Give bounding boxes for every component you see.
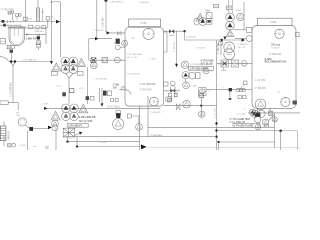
svg-text:2"-TO FLARE HDR: 2"-TO FLARE HDR xyxy=(230,118,251,121)
PSV dark label mid xyxy=(201,59,215,65)
diag arrow from hatched box xyxy=(75,132,83,136)
svg-text:2": 2" xyxy=(54,19,56,21)
svg-text:1-CONDENSER VENT: 1-CONDENSER VENT xyxy=(190,64,213,66)
boxed label bottom-left xyxy=(67,124,88,128)
svg-text:2": 2" xyxy=(244,109,246,111)
vessel S-580 body xyxy=(252,26,296,109)
tiny box near 265 xyxy=(264,124,268,127)
wire instrument row y60 xyxy=(89,39,125,61)
wire row y89.7 xyxy=(206,89,252,91)
circle B small xyxy=(136,124,143,131)
svg-text:2"-BM-580: 2"-BM-580 xyxy=(139,2,150,4)
wire line A y136.7 xyxy=(66,136,217,138)
left cluster circle below dark box xyxy=(91,62,98,69)
instrument box2 on y28 xyxy=(42,25,46,28)
boxes below y89.7 xyxy=(238,96,246,99)
hatched box xyxy=(63,128,74,137)
wire line y127.3 xyxy=(148,126,274,128)
svg-text:580: 580 xyxy=(16,115,20,117)
column C-5800 body xyxy=(125,28,164,107)
condenser text xyxy=(190,64,213,66)
box above riser x47.8 xyxy=(46,17,49,28)
sight glass right of column xyxy=(164,32,167,52)
big pill PSV xyxy=(224,42,235,60)
junction x201.3 xyxy=(200,98,202,117)
svg-text:PI: PI xyxy=(211,71,213,73)
pill cluster mid right xyxy=(182,72,200,80)
wire y142 right xyxy=(217,141,275,150)
svg-text:2"-BM-580: 2"-BM-580 xyxy=(151,112,162,114)
svg-text:2"-BM-580: 2"-BM-580 xyxy=(186,37,197,39)
riser x148 xyxy=(147,96,149,137)
valve bowtie y90.8 xyxy=(164,89,180,93)
bottom-left cluster triangle L xyxy=(51,111,60,120)
label XV xyxy=(107,107,121,109)
pills right of column xyxy=(171,81,176,90)
svg-text:VB: VB xyxy=(132,38,135,40)
instrument box on y28 xyxy=(29,25,33,28)
text above flare block xyxy=(236,114,246,116)
arrow into riser xyxy=(56,20,60,24)
stub below y89.7 xyxy=(229,91,232,100)
misc label l xyxy=(151,112,162,114)
wire long y108.4 xyxy=(44,107,160,110)
label mid small xyxy=(79,88,85,90)
drain valve dark xyxy=(10,50,13,53)
vessel2 text lower xyxy=(255,80,267,90)
wire line B y141.6 xyxy=(66,137,139,143)
slant wire gauge to valve xyxy=(25,125,30,129)
svg-text:2": 2" xyxy=(169,25,171,27)
svg-text:1 1/2"-BM-580: 1 1/2"-BM-580 xyxy=(10,82,12,97)
riser x87.5 xyxy=(87,67,89,104)
svg-text:1 1/2"-BM-580: 1 1/2"-BM-580 xyxy=(94,78,108,80)
svg-text:S-580: S-580 xyxy=(270,21,277,24)
svg-text:1-BM-580: 1-BM-580 xyxy=(101,17,104,28)
svg-text:4"-BM: 4"-BM xyxy=(100,142,106,144)
instrument dark box on y60 xyxy=(91,58,96,63)
misc label r xyxy=(20,145,26,147)
box top of chain xyxy=(227,6,233,10)
label top-left xyxy=(5,7,14,11)
svg-text:2": 2" xyxy=(223,87,225,89)
elbow curve from left xyxy=(0,57,9,62)
small box x129 xyxy=(127,114,131,118)
riser x244 top xyxy=(243,2,245,30)
misc label b xyxy=(26,19,32,21)
drum bottom nozzle xyxy=(7,45,14,49)
svg-text:1-BM-580: 1-BM-580 xyxy=(8,130,10,141)
svg-text:2-PSV-580 A/B: 2-PSV-580 A/B xyxy=(79,116,96,119)
right circle pair partial xyxy=(237,13,244,20)
svg-text:SET @ 350: SET @ 350 xyxy=(127,57,139,59)
motor box hatched xyxy=(0,126,6,141)
slant wire to vessel bottom xyxy=(268,115,275,122)
rotated label riser 216 xyxy=(214,108,216,118)
instrument row y63.4 circle xyxy=(242,61,248,67)
instrument circle EV xyxy=(11,11,14,20)
svg-text:1 1/2"-BM-5800: 1 1/2"-BM-5800 xyxy=(127,54,143,56)
misc label e xyxy=(127,54,143,56)
faint line y147.8 xyxy=(147,147,300,149)
condenser circle+triangle xyxy=(181,61,188,68)
svg-text:1"-BM: 1"-BM xyxy=(26,19,32,21)
stub below row xyxy=(221,67,226,70)
vessel2 bottom nozzles xyxy=(258,108,271,113)
riser x184.6 xyxy=(184,31,186,40)
nozzle boxes column right xyxy=(164,82,172,101)
agitator circle vessel2 bottom xyxy=(281,97,290,106)
valve ticks xyxy=(8,20,14,23)
svg-text:SET 350: SET 350 xyxy=(238,47,247,49)
svg-text:1-PV-580-FL: 1-PV-580-FL xyxy=(68,125,83,128)
svg-text:1 1/2"-BM-580: 1 1/2"-BM-580 xyxy=(140,83,157,86)
circle+triangle right label xyxy=(262,119,268,125)
wire y128.5 to arrow xyxy=(33,128,48,130)
wire top-left vertical xyxy=(24,0,26,22)
wire y34.3 row xyxy=(25,28,46,44)
svg-text:2"-FL-580: 2"-FL-580 xyxy=(214,108,216,118)
left cluster triangle R xyxy=(77,58,85,66)
svg-text:1 1/2": 1 1/2" xyxy=(79,88,85,90)
instrument circle on y60 xyxy=(115,57,121,63)
wire y38.5 to vessel2 xyxy=(235,38,246,40)
wire valve to circleB xyxy=(131,116,139,124)
instrument row y63.4 box1 xyxy=(221,60,228,67)
svg-text:PAH: PAH xyxy=(206,9,211,12)
misc label d xyxy=(94,30,105,32)
dark control valve x120 xyxy=(116,111,121,118)
tiny boxes above row xyxy=(169,93,178,96)
box left of vessel2 xyxy=(246,27,252,32)
misc label i xyxy=(196,48,206,50)
bottom-left triangle R xyxy=(79,104,88,113)
PAH chain circle 2 xyxy=(226,21,235,30)
dark valve below vessel2 xyxy=(255,112,261,117)
arrow end line C xyxy=(141,144,147,149)
label 1-BM-PSV xyxy=(26,36,39,40)
misc label c xyxy=(54,19,56,21)
boxed label PV-5800 xyxy=(189,66,214,70)
misc label s xyxy=(223,87,225,89)
small oval top right xyxy=(194,18,199,25)
misc label n xyxy=(244,109,246,111)
vessel2 right nozzle xyxy=(296,32,300,36)
misc label p xyxy=(218,64,224,66)
wire main header y21.5 xyxy=(0,21,56,23)
arrow x102 xyxy=(100,88,104,107)
label above y61.5 xyxy=(23,60,38,62)
arrow down x225 xyxy=(223,37,226,40)
valve on row y105.6 xyxy=(176,104,180,111)
riser x274.5 xyxy=(274,113,276,148)
svg-text:4"-1500 LB: 4"-1500 LB xyxy=(269,53,281,56)
box left edge y38 xyxy=(0,39,5,44)
wire y61.5 left xyxy=(9,61,51,63)
text right of PT box xyxy=(208,90,211,92)
svg-text:LG: LG xyxy=(208,90,211,92)
box+circle small xyxy=(269,111,273,115)
svg-text:1 1/2"-BM: 1 1/2"-BM xyxy=(255,80,265,82)
label 2-PSV dark xyxy=(79,116,96,123)
svg-text:2"-BM-580: 2"-BM-580 xyxy=(94,30,105,32)
PAH chain circle 1 xyxy=(226,13,235,22)
drum D-580 (U vessel) xyxy=(8,27,26,46)
wire cluster converge xyxy=(66,73,74,104)
svg-text:PSV: PSV xyxy=(1,9,6,11)
riser x280.7 xyxy=(280,131,282,150)
column inner text lines xyxy=(140,83,157,91)
small box left of big pill xyxy=(219,42,223,45)
valve tick on y34.3 xyxy=(27,33,29,35)
svg-text:1-PV-580-VENT: 1-PV-580-VENT xyxy=(190,67,209,71)
wire y29.8 to vessel2 xyxy=(234,29,247,31)
rotated label by motor xyxy=(8,130,10,141)
gauge circle xyxy=(18,118,26,126)
instrument box EV xyxy=(8,12,11,15)
wire below relief xyxy=(37,47,39,50)
vessel2 text psig xyxy=(271,44,281,50)
instrument diamond box on y60 xyxy=(102,57,108,62)
svg-text:2"-BM-580: 2"-BM-580 xyxy=(140,88,152,91)
instrument row y63.4 box2 xyxy=(231,60,238,67)
text block to flare xyxy=(230,118,251,124)
valve dark right of column xyxy=(169,29,174,35)
cluster below vessel2: pills xyxy=(251,110,265,123)
bottom-left 2x2 circles xyxy=(62,104,79,121)
text right of big pill xyxy=(238,44,249,49)
svg-text:C-580: C-580 xyxy=(140,22,147,25)
dark valve x104 xyxy=(103,91,111,96)
misc label k xyxy=(42,104,48,106)
PAH cluster left xyxy=(196,13,212,26)
svg-text:2"-BM: 2"-BM xyxy=(150,58,156,60)
svg-text:PSH: PSH xyxy=(236,10,241,12)
dark text left of column xyxy=(113,84,119,89)
wire cluster stem xyxy=(185,79,187,82)
circle+triangle small xyxy=(272,117,277,122)
circle left of vessel2 xyxy=(246,36,252,42)
svg-text:1 1/2"-BM-580: 1 1/2"-BM-580 xyxy=(127,74,141,76)
svg-text:M: M xyxy=(278,92,280,94)
svg-text:1 1/2"-BM-580: 1 1/2"-BM-580 xyxy=(23,60,38,62)
label right tiny xyxy=(236,10,241,12)
wire y40 xyxy=(185,38,246,41)
box with circle PT xyxy=(199,88,206,96)
label PG xyxy=(16,113,20,118)
left instrument cluster: triangle L xyxy=(52,63,61,71)
rotated label riser 176 xyxy=(174,41,176,52)
svg-text:2"-BM: 2"-BM xyxy=(191,86,197,88)
relief valve circle xyxy=(36,40,41,47)
tick element right of filter xyxy=(41,8,43,22)
svg-text:TO S-580: TO S-580 xyxy=(196,48,206,50)
tiny marks bottom xyxy=(34,146,49,149)
tiny box above y89.7 xyxy=(240,81,247,90)
label under y28 row xyxy=(34,31,44,33)
left cluster boxes xyxy=(52,72,84,76)
misc label a xyxy=(1,9,6,11)
label top tiny xyxy=(110,1,124,3)
riser x106 with elbow arrow xyxy=(105,0,126,35)
riser x27.5 xyxy=(27,131,29,150)
svg-text:1-BM-PSV: 1-BM-PSV xyxy=(26,36,39,40)
wire drum to junction xyxy=(10,53,12,61)
box circle above junction xyxy=(199,93,204,98)
converge V xyxy=(11,63,15,66)
misc label j xyxy=(56,86,62,88)
svg-text:2"-BM: 2"-BM xyxy=(113,84,119,86)
vessel2 text mid xyxy=(269,53,281,56)
circle A on row xyxy=(183,100,191,108)
riser x4 stub xyxy=(3,121,5,126)
control valve PV with actuator xyxy=(37,34,41,39)
extra circle vessel2 cluster xyxy=(249,109,255,115)
svg-text:1-BM-580: 1-BM-580 xyxy=(34,31,44,33)
riser x176.5 with arrow xyxy=(175,31,178,67)
misc label f xyxy=(127,57,139,59)
riser x60.4 xyxy=(52,2,61,57)
column C-5800 cap xyxy=(129,19,161,27)
arrow down x51 xyxy=(50,61,53,64)
svg-text:580: 580 xyxy=(113,88,118,90)
misc label m xyxy=(151,135,163,137)
misc label q xyxy=(100,142,106,144)
circle bottom small xyxy=(255,124,261,130)
svg-text:EV-580: EV-580 xyxy=(5,7,14,11)
svg-text:350 psig: 350 psig xyxy=(271,44,281,47)
wire column outlet top right xyxy=(164,30,186,32)
svg-text:2"-BM-580: 2"-BM-580 xyxy=(238,44,249,46)
filter F-1 xyxy=(37,0,40,21)
riser x51.5 xyxy=(50,0,53,62)
nozzle box right of column xyxy=(168,98,172,102)
bottom-left pill xyxy=(52,120,59,131)
dark box right vessel2 xyxy=(293,101,297,105)
small circle below label xyxy=(203,68,213,74)
tiny marks top xyxy=(214,4,219,7)
valve tick near column inlet xyxy=(118,31,122,35)
svg-text:1/2-XV-580-1: 1/2-XV-580-1 xyxy=(107,107,121,109)
instrument stack 2 xyxy=(16,14,22,21)
riser x139.5 drain xyxy=(139,106,141,150)
svg-text:2"-BM: 2"-BM xyxy=(218,64,224,66)
instrument row y63.4 wire xyxy=(217,62,252,64)
chain risers xyxy=(229,0,233,13)
riser x96.8 top xyxy=(96,0,98,39)
PAH chain triangle xyxy=(226,30,233,37)
label cap xyxy=(140,22,147,25)
riser x216 mid xyxy=(215,40,217,150)
wire row y105.6 xyxy=(164,105,217,107)
misc label h xyxy=(186,37,197,39)
valve dark small x69 xyxy=(62,89,74,97)
flag on riser x25 xyxy=(24,17,28,20)
rotated label on riser xyxy=(101,17,104,28)
vessel2 name text xyxy=(265,57,287,64)
misc label f3 xyxy=(127,74,141,76)
svg-text:RECOMBINATION: RECOMBINATION xyxy=(265,60,287,64)
cluster below vessel2: circle+triangle xyxy=(255,99,266,110)
circle below junction xyxy=(199,111,205,117)
wire line C y146.5 xyxy=(76,137,141,148)
svg-text:1-BM-5800-2": 1-BM-5800-2" xyxy=(110,1,124,3)
misc label g xyxy=(169,25,171,27)
vessel S-580 cap xyxy=(258,18,293,26)
svg-text:SET @ 350#: SET @ 350# xyxy=(79,120,93,123)
wire y28 row xyxy=(25,27,48,29)
label top right of cap xyxy=(139,2,150,4)
svg-text:2"-BM: 2"-BM xyxy=(42,104,48,106)
riser x221 xyxy=(220,40,222,55)
boxed label right xyxy=(233,124,260,128)
arrow on y38.7 xyxy=(95,37,98,40)
valve dark second xyxy=(3,24,6,27)
wire y113 under vessel2 xyxy=(248,112,300,114)
dark valve cluster left of column xyxy=(116,38,135,46)
instrument ellipse on y28 xyxy=(35,26,40,30)
riser x56 xyxy=(55,128,57,150)
svg-text:2"-BM-580: 2"-BM-580 xyxy=(255,88,267,90)
wire y38.7 xyxy=(89,38,112,40)
svg-text:1 1/2": 1 1/2" xyxy=(56,86,62,88)
tiny boxes above valve xyxy=(111,99,119,102)
riser x13 with label xyxy=(10,66,13,103)
column left nozzle T xyxy=(113,43,125,50)
valve dark left xyxy=(2,20,5,23)
bottom-left: box label xyxy=(0,101,18,110)
dark arrow into cluster xyxy=(48,126,52,130)
misc label f2 xyxy=(150,58,156,60)
label above left cluster xyxy=(206,9,211,12)
agitator circle vessel2 top xyxy=(275,29,284,38)
riser x297.5 xyxy=(281,131,298,150)
small valves at riser x87.5 bottom xyxy=(86,96,94,100)
rotated label x218 xyxy=(218,42,220,54)
column drain elbow xyxy=(119,87,131,95)
wire second header y25 xyxy=(0,25,21,28)
dark square valve xyxy=(29,127,33,131)
svg-text:1-PV-580-FLARE: 1-PV-580-FLARE xyxy=(234,125,254,128)
svg-text:2"-FL-580: 2"-FL-580 xyxy=(236,114,246,116)
label cap vessel2 xyxy=(270,21,277,24)
small pump bottom xyxy=(4,136,16,147)
misc label o xyxy=(278,92,280,94)
left cluster 2x2 circles xyxy=(61,57,78,73)
agitator circle top xyxy=(143,28,155,39)
small box right of riser xyxy=(0,0,1,1)
circle pairs on y89.7 xyxy=(236,88,245,91)
dark valve on y89.7 xyxy=(229,88,232,91)
circle+triangle pair near 120 xyxy=(113,118,124,129)
svg-text:2"-BM-580: 2"-BM-580 xyxy=(174,41,176,52)
wire y130.5 xyxy=(217,130,283,133)
svg-text:4"-BM-5800: 4"-BM-5800 xyxy=(151,135,163,137)
label above y108 line xyxy=(94,78,108,80)
agitator circle column bottom xyxy=(150,97,159,106)
svg-text:P-580: P-580 xyxy=(20,145,26,147)
junction dots on y61.5 xyxy=(10,60,16,63)
svg-text:@ 650 F: @ 650 F xyxy=(271,47,280,49)
circle PT right xyxy=(183,82,197,89)
